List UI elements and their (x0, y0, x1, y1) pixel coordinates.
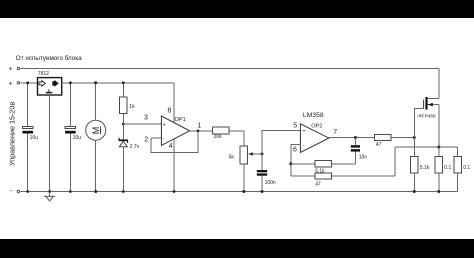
potentiometer P1 5k (229, 146, 262, 191)
svg-text:LM358: LM358 (303, 112, 324, 119)
svg-text:6: 6 (293, 147, 297, 154)
svg-text:47: 47 (376, 142, 382, 148)
svg-text:OP2: OP2 (311, 124, 322, 130)
wire: supply input to regulator (20, 82, 37, 84)
svg-text:20k: 20k (214, 134, 223, 140)
svg-text:+: + (163, 123, 166, 129)
junction: motor bottom (94, 190, 97, 193)
junction: zener bottom (122, 190, 125, 193)
wire: OP1 pin 4 to ground (173, 139, 175, 192)
wire: R2 to potentiometer top (229, 131, 244, 146)
junction: C1 top (26, 81, 29, 84)
junction: OP1 pin 4 on rail (173, 190, 176, 193)
ground (earth symbol) (44, 192, 55, 201)
svg-text:8: 8 (168, 107, 172, 114)
svg-text:7812: 7812 (38, 71, 49, 77)
op-amp OP2 LM358 (293, 112, 337, 154)
wire: ground rail (20, 191, 457, 193)
svg-text:5.1k: 5.1k (420, 165, 430, 171)
svg-text:100n: 100n (265, 180, 276, 186)
junction: motor top (94, 81, 97, 84)
svg-text:От испытуемого блока: От испытуемого блока (16, 54, 82, 62)
motor M (fan) (86, 83, 106, 192)
junction: OP1 output node (197, 130, 200, 133)
junction: source/sense node (437, 146, 440, 149)
svg-text:+: + (9, 66, 13, 73)
resistor R5 47 (gate) (374, 134, 414, 148)
wire: OP2 pin 6 stub (291, 145, 301, 164)
resistor R6 5.1k (gate pulldown) (411, 138, 430, 192)
svg-text:1k: 1k (129, 104, 135, 110)
wire: sense rail (395, 146, 458, 148)
resistor R2 20k (213, 127, 230, 140)
junction: OP2 pin6/R3/R4 node (289, 162, 292, 165)
wire: gate node to MOSFET gate (414, 109, 423, 138)
capacitor C3 100n (257, 154, 276, 192)
svg-text:2: 2 (144, 136, 148, 143)
wire: drain to top rail (438, 68, 440, 98)
junction: R6 bottom (413, 190, 416, 193)
wire: OP1 pin 2 stub (151, 137, 161, 139)
junction: C2 top (69, 81, 72, 84)
regulator U1 7812 (38, 71, 62, 95)
terminal + (supply) (9, 81, 20, 88)
zener D1 2.7v (119, 124, 140, 191)
wire: source down to sense rail (438, 105, 440, 148)
capacitor C4 10n (351, 138, 367, 164)
svg-text:4: 4 (169, 143, 173, 150)
resistor R8 0.1 (shunt) (454, 147, 471, 191)
svg-text:7: 7 (333, 129, 337, 136)
svg-text:+: + (9, 81, 13, 88)
svg-text:5: 5 (293, 123, 297, 130)
svg-text:10n: 10n (359, 155, 368, 161)
svg-text:OP1: OP1 (175, 117, 186, 123)
resistor R1 1k (119, 83, 135, 124)
svg-text:10u: 10u (73, 135, 82, 141)
wire: OP1 feedback loop (151, 131, 198, 152)
svg-text:IRFP460: IRFP460 (417, 113, 436, 118)
junction: R7 bottom (437, 190, 440, 193)
svg-text:0.1: 0.1 (444, 165, 451, 171)
junction: C2 bottom (69, 190, 72, 193)
resistor R3 5.1k (291, 161, 356, 175)
wire: wiper to OP2 pin 5 (262, 131, 300, 154)
svg-text:10u: 10u (30, 135, 39, 141)
resistor R7 0.1 (shunt) (435, 147, 451, 191)
svg-text:+: + (303, 129, 306, 135)
junction: pot bottom (242, 190, 245, 193)
op-amp OP1 (144, 107, 201, 149)
wire: top rail (20, 67, 439, 69)
wire: node to OP1 pin 3 (123, 123, 161, 125)
capacitor C1 10u (22, 83, 38, 192)
resistor R4 47 (feedback) (291, 164, 395, 187)
junction: C3 bottom (261, 190, 264, 193)
junction: C1 bottom (26, 190, 29, 193)
svg-text:0.1: 0.1 (463, 165, 470, 171)
junction: pot wiper node (261, 152, 264, 155)
junction: regulator ground on rail (48, 190, 51, 193)
wire: OP1 output (190, 130, 213, 132)
svg-text:1: 1 (197, 123, 201, 130)
svg-text:M: M (91, 127, 101, 135)
terminal - (ground) (10, 188, 20, 195)
junction: gate node (413, 136, 416, 139)
capacitor C2 10u (65, 83, 81, 192)
wire: OP2 output (329, 137, 375, 139)
wire: V+ rail from regulator to OP1 pin 8 (62, 83, 174, 123)
junction: R1 top (122, 81, 125, 84)
junction: OP2 output node (354, 136, 357, 139)
svg-text:47: 47 (315, 181, 321, 187)
svg-text:3: 3 (144, 115, 148, 122)
wire: regulator ground pin (49, 95, 51, 192)
wire: sense feedback riser (394, 147, 396, 176)
svg-text:5k: 5k (229, 155, 235, 161)
terminal + (top) (9, 66, 20, 73)
junction: node R1/zener/pin3 (122, 123, 125, 126)
svg-text:2.7v: 2.7v (130, 144, 140, 150)
transistor Q1 IRFP460 (417, 97, 439, 118)
svg-text:Управление 15-20в: Управление 15-20в (7, 102, 16, 166)
